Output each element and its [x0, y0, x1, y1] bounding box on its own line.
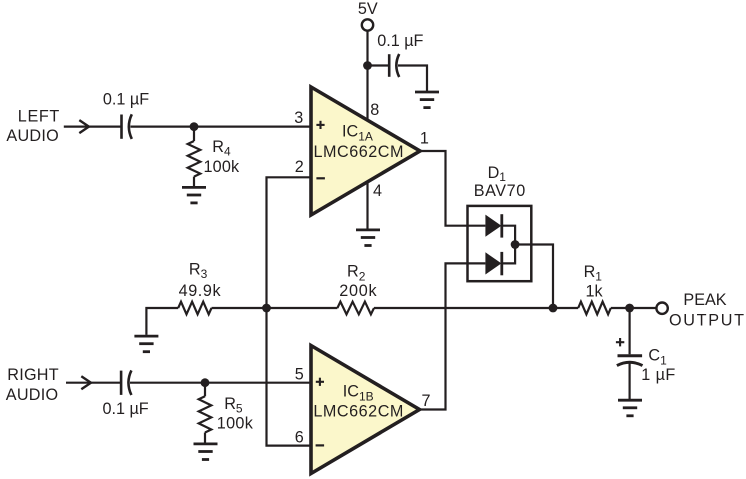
wire R3 ground lead [146, 308, 178, 335]
pin 6 label [295, 428, 304, 446]
node junction dot diode output on main line [549, 304, 558, 313]
label LMC662CM (IC1B) [313, 403, 403, 421]
pin 5 label [295, 365, 304, 383]
wire R3 to R2 [212, 307, 338, 309]
pin 1 label [420, 129, 429, 147]
label R1 [584, 263, 603, 284]
label 5V [358, 0, 378, 18]
op-amp IC1B minus input sign [316, 444, 325, 446]
svg-text:2: 2 [295, 158, 304, 176]
capacitor 0.1uF right input, flat plate [120, 371, 123, 395]
label 1k [585, 283, 603, 301]
wire IC1A output pin 1 to upper diode anode [419, 151, 485, 226]
label 100k (R5) [217, 414, 254, 432]
wire cap to IC1B pin 5 [130, 382, 311, 384]
svg-text:AUDIO: AUDIO [6, 386, 58, 404]
svg-text:LMC662CM: LMC662CM [313, 403, 403, 421]
wire junction to bypass cap [368, 64, 390, 66]
node junction dot left audio / R4 [190, 122, 199, 131]
capacitor C1 1uF polarized, flat top plate [618, 354, 643, 357]
diode D1 upper, anode triangle [485, 215, 501, 237]
svg-text:5: 5 [295, 365, 304, 383]
label 1 uF (C1) [641, 366, 675, 384]
svg-text:200k: 200k [339, 282, 377, 300]
op-amp IC1B plus input sign [316, 378, 324, 386]
node junction dot diode common cathode [511, 240, 520, 249]
arrow input LEFT [79, 120, 89, 133]
ground below R3 [134, 336, 158, 352]
svg-text:1: 1 [420, 129, 429, 147]
svg-text:1 µF: 1 µF [641, 366, 675, 384]
svg-text:1k: 1k [585, 283, 603, 301]
output terminal circle PEAK OUTPUT [656, 303, 667, 314]
label IC1B [343, 382, 374, 403]
diode D1 lower, anode triangle [485, 252, 501, 274]
label IC1A [342, 123, 373, 144]
label LMC662CM (IC1A) [314, 143, 404, 161]
svg-text:RIGHT: RIGHT [7, 366, 58, 384]
label 200k [339, 282, 377, 300]
wire diode common cathode out to main line [515, 245, 553, 309]
wire LEFT AUDIO input to coupling cap [64, 125, 122, 127]
pin 3 label [294, 109, 303, 127]
label D1 [488, 164, 507, 184]
svg-text:3: 3 [294, 109, 303, 127]
resistor R1 1k [578, 302, 611, 315]
svg-text:100k: 100k [217, 414, 254, 432]
resistor R2 200k [337, 302, 374, 315]
wire RIGHT AUDIO input to coupling cap [66, 382, 121, 384]
capacitor 0.1uF bypass, curved plate [396, 54, 399, 77]
wire output node down to C1 [628, 308, 630, 354]
label R4 [212, 138, 231, 158]
pin 7 label [421, 392, 430, 410]
wire R2 to R1 [374, 307, 578, 309]
pin 2 label [295, 158, 304, 176]
node junction dot feedback node [262, 304, 271, 313]
wire cap to IC1A pin 3 [130, 125, 310, 127]
arrow input RIGHT [81, 376, 91, 389]
svg-text:LMC662CM: LMC662CM [314, 143, 404, 161]
diode D1 upper, cathode bar [500, 214, 503, 237]
label 0.1 uF bypass cap [377, 32, 423, 50]
wire lower diode cathode to common node [502, 245, 515, 264]
op-amp U2 IC1B triangle [311, 346, 420, 474]
resistor R4 100k vertical [188, 127, 201, 187]
svg-text:8: 8 [370, 101, 379, 119]
label R5 [224, 395, 243, 415]
ground below IC1A pin 4 [356, 230, 380, 246]
power terminal 5V circle [362, 19, 373, 30]
svg-text:49.9k: 49.9k [179, 282, 222, 300]
node junction dot right audio / R5 [201, 378, 210, 387]
svg-text:AUDIO: AUDIO [6, 127, 58, 145]
op-amp IC1A plus input sign [316, 121, 324, 129]
svg-text:100k: 100k [204, 158, 240, 176]
resistor R5 100k vertical [199, 383, 212, 443]
capacitor 0.1uF left input, curved plate [129, 114, 132, 139]
wire IC1A pin 4 to ground [366, 182, 368, 229]
ground below bypass cap [415, 92, 439, 108]
wire upper diode cathode to common node [502, 226, 515, 245]
svg-text:LEFT: LEFT [18, 107, 60, 125]
label R3 [189, 261, 208, 282]
pin 8 label [370, 101, 379, 119]
label RIGHT AUDIO [6, 366, 59, 404]
label 100k (R4) [204, 158, 240, 176]
svg-text:4: 4 [373, 182, 382, 200]
wire bypass cap to ground [398, 66, 427, 92]
svg-text:PEAK: PEAK [683, 291, 726, 309]
node junction dot 5V / bypass cap [363, 61, 372, 70]
svg-text:6: 6 [295, 428, 304, 446]
ground below C1 [618, 400, 642, 416]
label LEFT AUDIO [6, 107, 59, 144]
svg-text:5V: 5V [358, 0, 378, 18]
label 0.1 uF right input cap [102, 400, 148, 418]
op-amp U1 IC1A triangle [311, 87, 420, 215]
wire 5V to IC1A pin 8 [366, 31, 368, 121]
op-amp IC1A minus input sign [316, 177, 325, 179]
wire IC1A pin 2 feedback down to IC1B pin 6 [267, 177, 311, 445]
wire R1 to output terminal [611, 307, 657, 309]
label BAV70 [474, 182, 526, 200]
label PEAK OUTPUT [669, 291, 744, 330]
capacitor 0.1uF left input, flat plate [120, 115, 123, 139]
pin 4 label [373, 182, 382, 200]
svg-text:0.1 µF: 0.1 µF [102, 400, 148, 418]
svg-text:0.1 µF: 0.1 µF [377, 32, 423, 50]
label 0.1 uF left input cap [103, 90, 149, 108]
svg-text:0.1 µF: 0.1 µF [103, 90, 149, 108]
diode package D1 box [468, 206, 532, 281]
capacitor 0.1uF right input, curved plate [128, 370, 131, 395]
label R2 [347, 263, 366, 284]
capacitor 0.1uF bypass, flat plate [388, 54, 391, 77]
label 49.9k [179, 282, 222, 300]
label C1 [648, 347, 667, 368]
wire IC1B output pin 7 to lower diode anode [419, 263, 486, 409]
plus sign C1 polarity [616, 338, 624, 346]
ground below R5 [194, 444, 218, 460]
svg-text:7: 7 [421, 392, 430, 410]
ground below R4 [182, 187, 206, 203]
svg-text:BAV70: BAV70 [474, 182, 526, 200]
capacitor C1 curved bottom plate [617, 362, 643, 365]
diode D1 lower, cathode bar [500, 252, 503, 275]
wire C1 to ground [628, 363, 630, 399]
node junction dot output / C1 [625, 304, 634, 313]
resistor R3 49.9k [178, 302, 211, 315]
